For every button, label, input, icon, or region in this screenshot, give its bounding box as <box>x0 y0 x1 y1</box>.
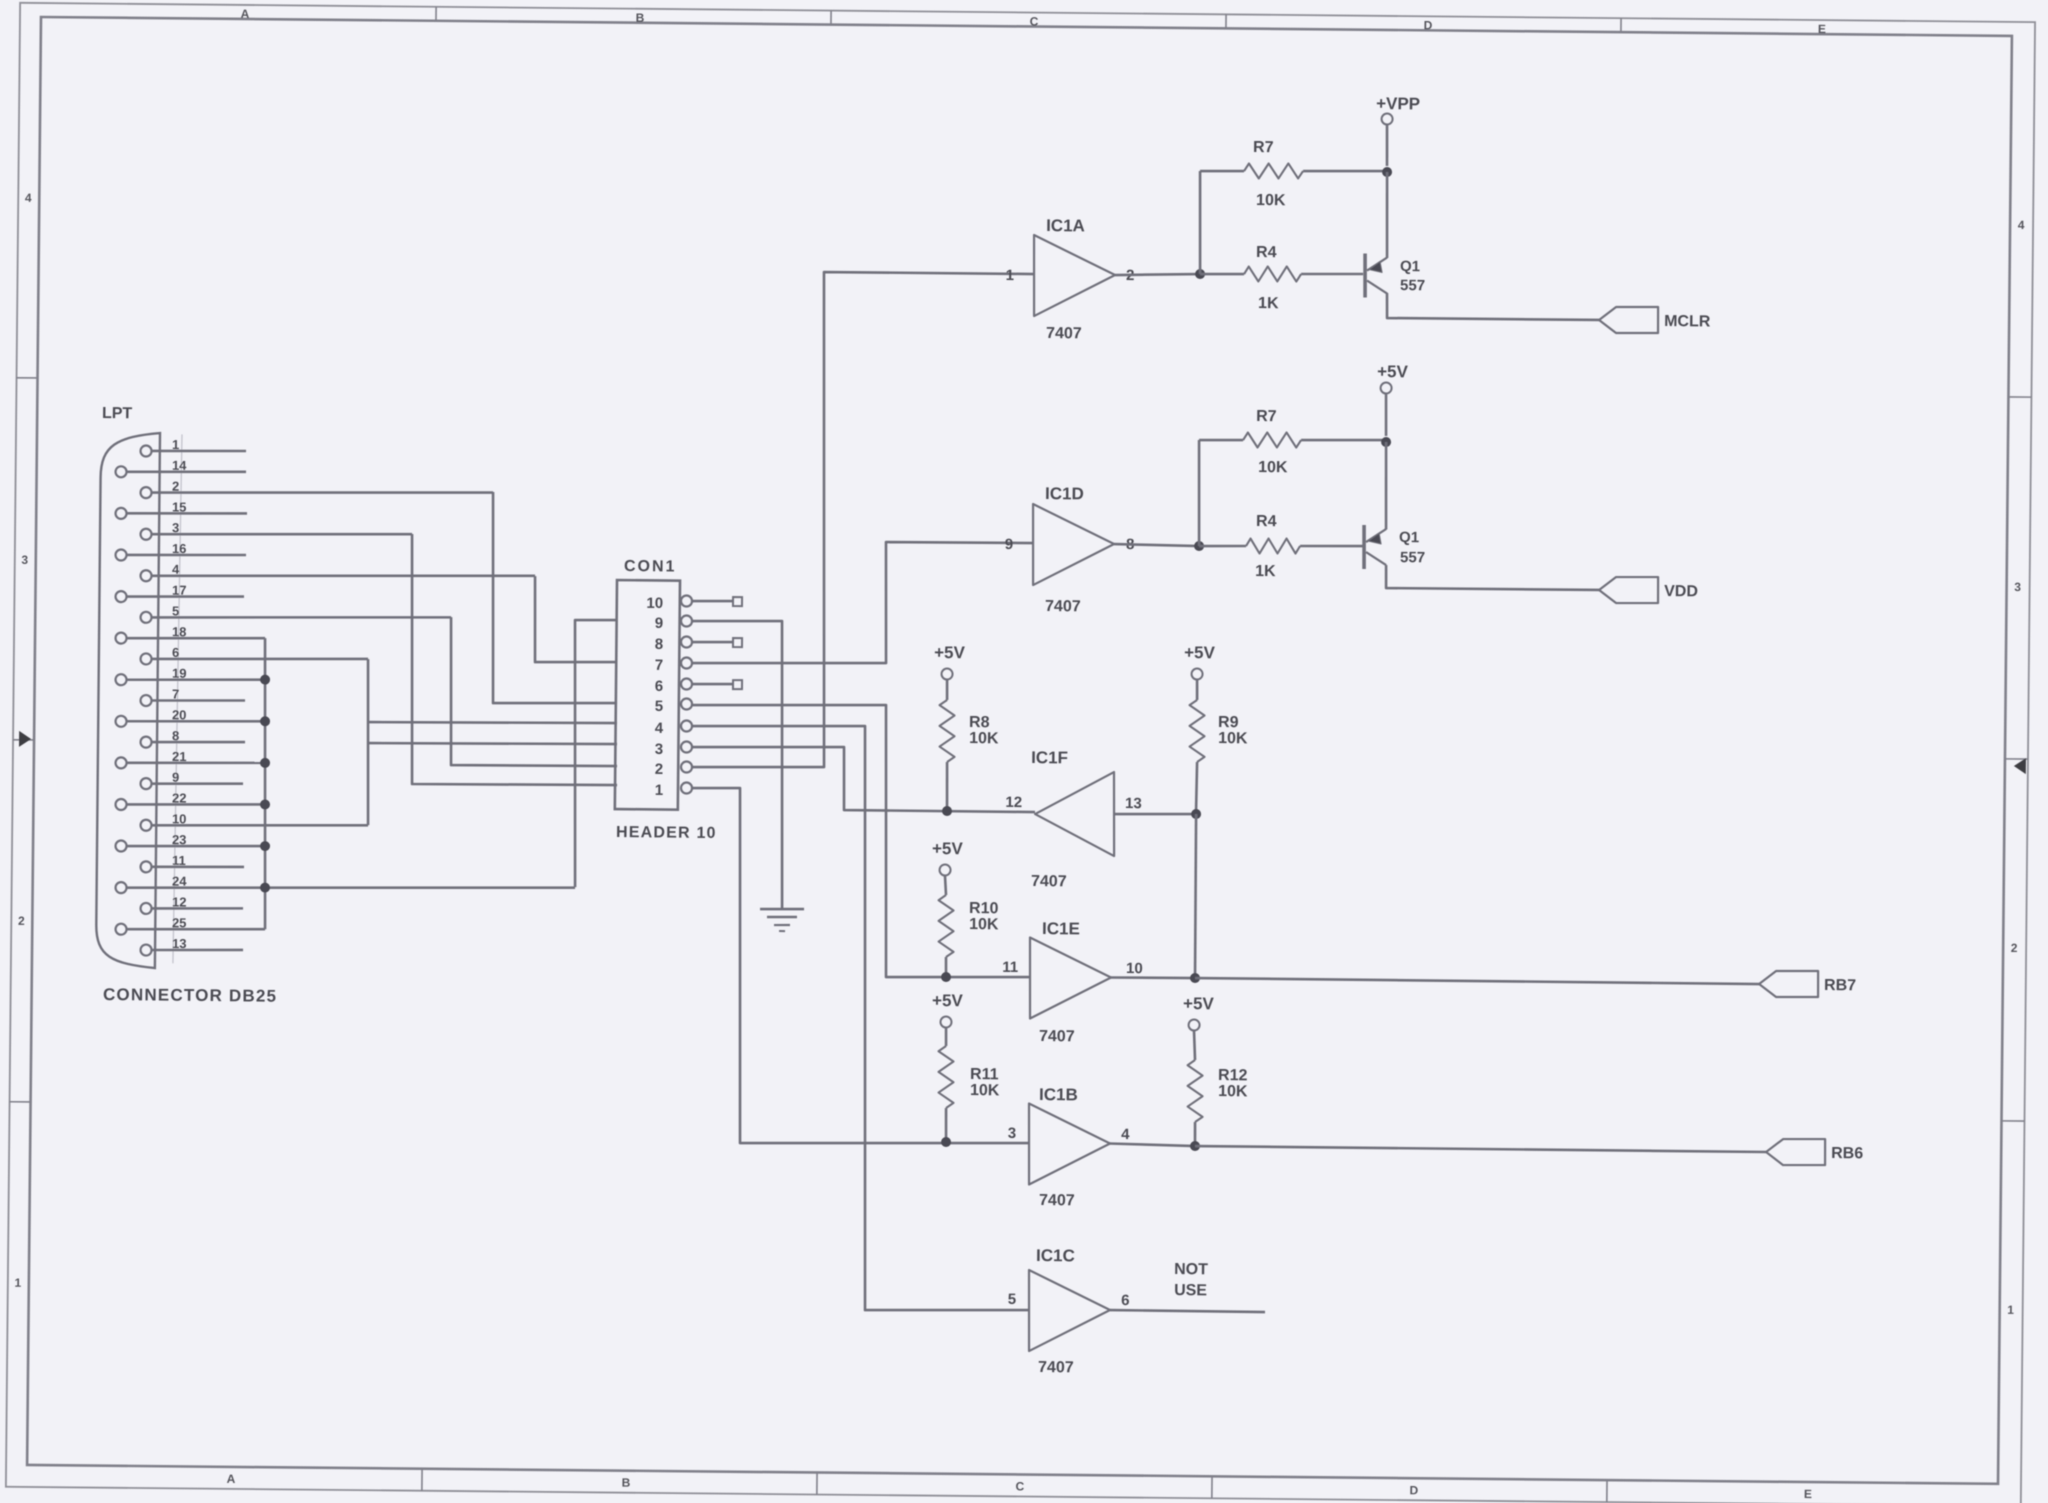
svg-text:1: 1 <box>14 1276 21 1290</box>
buffer IC1E 7407 <box>1029 938 1111 1020</box>
svg-text:B: B <box>636 11 645 25</box>
svg-text:10K: 10K <box>1258 459 1288 476</box>
svg-text:10: 10 <box>1126 960 1143 977</box>
wire to R7 <box>1198 440 1200 546</box>
svg-text:IC1B: IC1B <box>1039 1085 1078 1104</box>
svg-text:1: 1 <box>2007 1303 2014 1317</box>
svg-text:9: 9 <box>655 615 664 632</box>
buffer IC1C 7407 <box>1028 1270 1110 1352</box>
svg-text:R8: R8 <box>969 714 990 731</box>
power +VPP <box>1385 124 1388 166</box>
wire to R4 <box>1199 544 1246 548</box>
svg-text:557: 557 <box>1400 277 1425 294</box>
svg-text:12: 12 <box>1005 794 1022 811</box>
svg-text:4: 4 <box>655 720 664 737</box>
wire riser to CON1 pin3 <box>368 742 617 746</box>
svg-text:7407: 7407 <box>1039 1028 1075 1045</box>
wire DB25 pin4 to CON1 pin7 <box>534 576 618 663</box>
buffer IC1A 7407 <box>1033 235 1115 317</box>
svg-text:7407: 7407 <box>1039 1192 1075 1209</box>
DB25 pin 6 <box>140 653 151 664</box>
svg-text:MCLR: MCLR <box>1664 313 1711 330</box>
svg-text:3: 3 <box>655 741 664 758</box>
junction <box>260 799 270 809</box>
DB25 pin 19 <box>115 674 126 685</box>
svg-text:R7: R7 <box>1253 139 1274 156</box>
junction <box>1190 1141 1200 1151</box>
svg-text:10K: 10K <box>1218 730 1248 747</box>
port MCLR <box>1599 306 1658 333</box>
resistor R12 10K <box>1194 1031 1196 1060</box>
svg-text:VDD: VDD <box>1664 583 1698 600</box>
DB25 pin 8 <box>140 737 151 748</box>
svg-text:3: 3 <box>21 553 28 567</box>
DB25 pin 10 <box>140 820 151 831</box>
svg-text:10K: 10K <box>969 916 999 933</box>
DB25 pin 16 <box>115 549 126 560</box>
connector J1 DB25 body <box>96 432 160 968</box>
wire to port RB6 <box>1195 1146 1766 1152</box>
svg-text:1K: 1K <box>1258 295 1279 312</box>
DB25 pin 1 <box>140 445 151 456</box>
no-connect square CON1 pin8 <box>692 640 733 643</box>
svg-text:C: C <box>1030 14 1039 28</box>
wire CON1 pin2 to IC1A input <box>692 271 1034 771</box>
svg-text:R9: R9 <box>1218 714 1239 731</box>
wire IC1C output not used <box>1110 1310 1265 1312</box>
svg-text:R4: R4 <box>1256 513 1277 530</box>
svg-text:LPT: LPT <box>102 405 133 422</box>
transistor Q1 557 (PNP) <box>1386 172 1388 258</box>
DB25 pin 25 <box>115 924 126 935</box>
svg-text:1: 1 <box>655 782 664 799</box>
svg-text:IC1C: IC1C <box>1036 1246 1075 1265</box>
svg-text:8: 8 <box>655 636 664 653</box>
svg-text:IC1D: IC1D <box>1045 484 1084 503</box>
svg-text:3: 3 <box>1008 1125 1017 1142</box>
svg-text:7407: 7407 <box>1045 598 1081 615</box>
wire Q1 collector to VDD <box>1386 565 1599 590</box>
resistor R11 10K <box>945 1028 948 1046</box>
svg-text:4: 4 <box>25 191 32 205</box>
no-connect square CON1 pin6 <box>692 682 733 685</box>
resistor R4 1K <box>1244 266 1301 282</box>
wire CON1 pin9 to ground <box>689 620 785 908</box>
junction <box>260 758 270 768</box>
border column ticks and letters <box>435 7 437 21</box>
wire CON1 pin1 to IC1B input <box>689 788 1033 1146</box>
DB25 pin 12 <box>140 903 151 914</box>
svg-text:5: 5 <box>655 698 664 715</box>
svg-text:2: 2 <box>18 914 25 928</box>
port RB6 <box>1766 1139 1825 1166</box>
port VDD <box>1599 576 1658 603</box>
svg-text:D: D <box>1410 1483 1419 1497</box>
resistor R7 10K <box>1243 432 1301 448</box>
svg-text:Q1: Q1 <box>1399 529 1419 546</box>
wire IC1F input from R9 node <box>1114 813 1196 815</box>
DB25 pin 7 <box>140 695 151 706</box>
DB25 pin 17 <box>115 591 126 602</box>
svg-text:D: D <box>1424 18 1433 32</box>
svg-text:CONNECTOR DB25: CONNECTOR DB25 <box>103 985 277 1006</box>
left centre arrow mark <box>19 731 31 747</box>
wire IC1E output <box>1110 977 1195 978</box>
power +5V for R8 <box>941 668 952 679</box>
svg-text:IC1E: IC1E <box>1042 919 1080 938</box>
wire DB25 pin6 to pin10 riser <box>366 659 369 825</box>
svg-text:2: 2 <box>2011 941 2018 955</box>
ground bus wire joining DB25 pins 18-25 <box>262 638 268 929</box>
DB25 pin 5 <box>140 612 151 623</box>
DB25 pin 4 <box>140 570 151 581</box>
junction <box>941 1137 951 1147</box>
svg-text:5: 5 <box>1008 1291 1017 1308</box>
border row ticks and numbers <box>17 377 38 379</box>
port RB7 <box>1759 970 1818 997</box>
svg-text:6: 6 <box>1121 1292 1130 1309</box>
right centre arrow mark <box>2014 758 2026 774</box>
svg-text:IC1A: IC1A <box>1046 216 1085 235</box>
svg-text:RB6: RB6 <box>1831 1145 1863 1162</box>
junction <box>941 972 951 982</box>
svg-text:R7: R7 <box>1256 408 1277 425</box>
svg-text:CON1: CON1 <box>624 558 677 576</box>
svg-text:USE: USE <box>1174 1282 1207 1299</box>
svg-text:+5V: +5V <box>1183 994 1215 1013</box>
ground symbol <box>760 907 804 910</box>
buffer IC1B 7407 <box>1028 1104 1110 1186</box>
DB25 pin 2 <box>140 487 151 498</box>
DB25 pin 20 <box>115 716 126 727</box>
wire IC1D output <box>1114 544 1199 546</box>
svg-text:A: A <box>227 1472 236 1486</box>
svg-text:7: 7 <box>655 657 664 674</box>
transistor Q1 557 (PNP) <box>1385 442 1387 530</box>
buffer IC1D 7407 <box>1032 504 1114 586</box>
svg-text:E: E <box>1818 22 1826 36</box>
junction <box>260 883 270 893</box>
svg-text:1K: 1K <box>1255 563 1276 580</box>
wire to R4 <box>1200 272 1244 275</box>
svg-text:+5V: +5V <box>1377 362 1409 381</box>
DB25 pin 9 <box>140 778 151 789</box>
wire to port RB7 <box>1195 978 1759 984</box>
svg-text:10K: 10K <box>1218 1083 1248 1100</box>
svg-text:2: 2 <box>655 761 664 778</box>
scan crease line <box>173 434 182 963</box>
junction <box>1381 437 1391 447</box>
svg-text:+5V: +5V <box>934 643 966 662</box>
wire CON1 pin5 to IC1E input <box>689 703 1032 978</box>
power +5V for R10 <box>940 864 951 875</box>
svg-text:R10: R10 <box>969 900 999 917</box>
svg-text:4: 4 <box>2018 218 2025 232</box>
resistor R7 10K <box>1244 163 1303 179</box>
junction <box>1190 973 1200 983</box>
no-connect square CON1 pin10 <box>692 599 733 602</box>
junction <box>1191 809 1201 819</box>
svg-text:Q1: Q1 <box>1400 258 1420 275</box>
wire ground riser to CON1 pin9 <box>572 620 617 888</box>
svg-text:7407: 7407 <box>1038 1359 1074 1376</box>
svg-text:9: 9 <box>1005 536 1014 553</box>
DB25 pin 11 <box>140 861 151 872</box>
svg-text:+VPP: +VPP <box>1376 94 1420 113</box>
buffer IC1F 7407 (faces left) <box>1035 771 1115 856</box>
wire IC1A output <box>1115 273 1200 276</box>
svg-text:10: 10 <box>646 595 663 612</box>
wire DB25 pin5 to CON1 pin2 <box>450 617 619 767</box>
DB25 pin 3 <box>140 529 151 540</box>
svg-text:R12: R12 <box>1218 1067 1248 1084</box>
junction <box>1382 167 1392 177</box>
resistor R4 1K <box>1246 538 1300 554</box>
svg-text:10K: 10K <box>970 1082 1000 1099</box>
resistor R9 10K <box>1196 680 1199 700</box>
svg-text:1: 1 <box>1006 267 1015 284</box>
svg-text:E: E <box>1804 1487 1812 1501</box>
DB25 pin 14 <box>115 466 126 477</box>
svg-text:R4: R4 <box>1256 244 1277 261</box>
wire R9 node down to IC1E output node <box>1195 814 1197 978</box>
svg-text:R11: R11 <box>970 1066 999 1083</box>
wire riser to CON1 pin4 <box>368 721 617 725</box>
power +5V for R12 <box>1189 1019 1200 1030</box>
wire CON1 pin3 to IC1F output <box>691 746 1035 812</box>
wire CON1 pin4 to IC1C input <box>686 724 1034 1311</box>
svg-text:+5V: +5V <box>1184 643 1216 662</box>
DB25 pin 15 <box>115 508 126 519</box>
svg-text:NOT: NOT <box>1174 1261 1208 1278</box>
svg-text:A: A <box>241 7 250 21</box>
svg-text:C: C <box>1016 1479 1025 1493</box>
svg-text:10K: 10K <box>1256 192 1286 209</box>
junction <box>260 841 270 851</box>
svg-text:IC1F: IC1F <box>1031 748 1068 767</box>
junction <box>1194 541 1204 551</box>
wire DB25 pin2 to CON1 pin5 <box>491 492 619 704</box>
svg-text:HEADER 10: HEADER 10 <box>616 824 717 842</box>
power +5V <box>1384 393 1387 436</box>
junction <box>260 716 270 726</box>
DB25 pin 22 <box>115 799 126 810</box>
svg-text:B: B <box>622 1476 631 1490</box>
resistor R10 10K <box>945 876 946 895</box>
DB25 pin 21 <box>115 757 126 768</box>
wire to R7 <box>1199 171 1201 274</box>
svg-text:RB7: RB7 <box>1824 977 1856 994</box>
svg-text:4: 4 <box>1121 1126 1130 1143</box>
resistor R8 10K <box>946 680 949 700</box>
wire DB25 pin3 to CON1 pin1 <box>410 534 620 786</box>
DB25 pin 23 <box>115 840 126 851</box>
svg-text:7407: 7407 <box>1031 873 1067 890</box>
power +5V for R11 <box>940 1016 951 1027</box>
wire CON1 pin7 to IC1D input <box>692 540 1033 667</box>
wire Q1 collector to MCLR <box>1387 293 1600 320</box>
svg-text:557: 557 <box>1400 549 1425 566</box>
wire IC1B output <box>1109 1144 1195 1147</box>
DB25 pin 18 <box>115 633 126 644</box>
svg-text:3: 3 <box>2014 580 2021 594</box>
svg-text:11: 11 <box>1002 959 1018 976</box>
svg-text:+5V: +5V <box>932 991 964 1010</box>
svg-text:13: 13 <box>1125 795 1142 812</box>
junction <box>260 675 270 685</box>
junction <box>1195 269 1205 279</box>
svg-text:+5V: +5V <box>932 839 964 858</box>
DB25 pin 24 <box>115 882 126 893</box>
connector CON1 HEADER 10 body <box>615 580 680 810</box>
svg-text:6: 6 <box>655 678 664 695</box>
DB25 pin 13 <box>140 944 151 955</box>
svg-text:10K: 10K <box>969 730 999 747</box>
svg-text:7407: 7407 <box>1046 325 1082 342</box>
power +5V for R9 <box>1191 668 1202 679</box>
junction <box>942 806 952 816</box>
